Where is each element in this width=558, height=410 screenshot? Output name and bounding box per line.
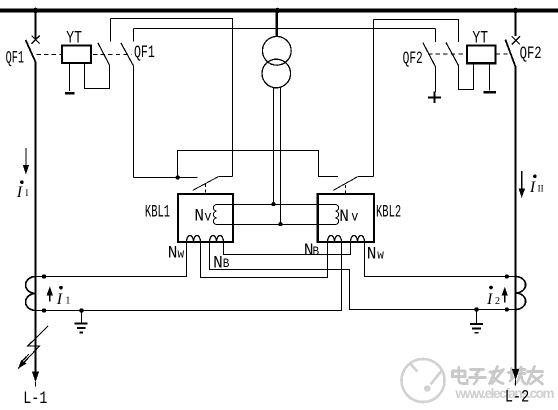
label QF1 (breaker) bbox=[6, 49, 24, 69]
svg-text:N: N bbox=[168, 244, 178, 264]
label I1 bbox=[59, 286, 63, 290]
wire: aux1 top terminal bbox=[110, 19, 112, 42]
CT TA1 secondary winding bbox=[26, 277, 36, 311]
breaker QF1 contact cross bbox=[32, 36, 40, 44]
wire: upper Nv link bbox=[217, 204, 336, 206]
wire: KBL2 Nw right lead to right CT upper bbox=[365, 242, 516, 277]
wire: YT right lead to QF1 aux1 bbox=[85, 63, 110, 88]
minus terminal (left YT) bbox=[65, 92, 74, 95]
busbar bbox=[0, 8, 558, 12]
aux contact QF1 no.2 blade bbox=[121, 43, 133, 66]
ground (right) bbox=[470, 310, 483, 333]
breaker QF2 blade bbox=[505, 40, 515, 68]
node: bus tap right feeder bbox=[513, 8, 519, 14]
label QF2 (aux) bbox=[403, 50, 423, 69]
wire: KBL1 Nw left lead to left CT bbox=[36, 242, 187, 277]
label NB (KBL2) bbox=[304, 241, 314, 261]
svg-text:I: I bbox=[56, 291, 63, 308]
watermark logo circle bbox=[402, 359, 445, 402]
svg-text:L-2: L-2 bbox=[505, 387, 529, 407]
label L-1 bbox=[23, 388, 47, 408]
winding Nw of KBL2 bbox=[351, 236, 365, 242]
svg-text:I: I bbox=[486, 291, 493, 308]
minus terminal (right YT) bbox=[484, 91, 496, 94]
aux contact QF2 no.1 blade bbox=[446, 42, 459, 66]
node: right CT lower terminal bbox=[505, 307, 509, 311]
KBL1 output switch blade bbox=[193, 177, 219, 191]
svg-text:I: I bbox=[16, 184, 23, 201]
svg-text:w: w bbox=[178, 247, 185, 262]
node A junction dot bbox=[176, 175, 180, 179]
svg-text:B: B bbox=[313, 244, 320, 259]
wire: right YT right lead to minus bbox=[489, 63, 491, 90]
svg-text:N: N bbox=[194, 207, 204, 227]
trip coil YT (right) bbox=[467, 46, 496, 64]
wire: right feeder main bbox=[515, 68, 517, 370]
label QF1 (aux) bbox=[134, 44, 155, 63]
wire: KBL1 switch pivot to line A bbox=[218, 176, 232, 178]
winding Nw of KBL1 bbox=[187, 236, 201, 242]
relay KBL2 box bbox=[318, 194, 374, 242]
svg-text:v: v bbox=[204, 209, 211, 225]
wire: right aux2 bottom to plus bbox=[435, 66, 437, 92]
label YT (left) bbox=[66, 28, 82, 48]
wire: right aux1 bottom to YT right bbox=[459, 63, 474, 89]
svg-text:YT: YT bbox=[472, 28, 488, 48]
wire: KBL1 NB right lead to KBL2 Nw left lead bbox=[224, 242, 351, 255]
node: left CT lower terminal bbox=[42, 308, 46, 312]
svg-text:2: 2 bbox=[495, 296, 500, 307]
node: right CT upper terminal bbox=[505, 274, 509, 278]
wire: right feeder upper stub bbox=[515, 11, 517, 37]
wire: node A horizontal (fixed contact of KBL1 switch) bbox=[134, 177, 198, 179]
label I2 bbox=[489, 286, 493, 290]
trip coil YT (left) bbox=[62, 46, 91, 64]
label Nv (KBL1) bbox=[194, 207, 204, 227]
svg-text:N: N bbox=[213, 254, 223, 274]
relay KBL1 box bbox=[178, 194, 233, 242]
svg-text:w: w bbox=[377, 248, 384, 263]
current arrow I-II (right feeder) bbox=[521, 171, 523, 191]
linkage dash KBL1 switch bbox=[204, 184, 206, 194]
KBL2 output switch blade bbox=[333, 177, 358, 191]
breaker QF1 blade bbox=[26, 40, 36, 63]
wire: YT left lead to minus bbox=[69, 63, 71, 91]
label Nw (KBL2) bbox=[367, 245, 377, 265]
watermark text 电子发烧友 (simulated strokes) bbox=[453, 367, 543, 385]
svg-text:QF1: QF1 bbox=[134, 44, 155, 63]
breaker QF2 contact cross bbox=[512, 36, 520, 44]
wire: lower Nv link bbox=[217, 224, 336, 226]
svg-text:QF2: QF2 bbox=[403, 50, 423, 69]
short-circuit bolt on L-1 bbox=[18, 326, 48, 369]
svg-text:II: II bbox=[538, 183, 544, 193]
wire: left feeder upper stub bbox=[35, 11, 37, 39]
node: lead a on upper Nv link bbox=[271, 202, 275, 206]
transformer T lower winding bbox=[262, 59, 291, 88]
wire: node A up and across to KBL2 switch fixed contact bbox=[178, 151, 338, 178]
svg-text:QF2: QF2 bbox=[520, 43, 542, 64]
CT TA2 secondary winding bbox=[516, 277, 526, 310]
left feeder end arrow bbox=[32, 372, 39, 383]
node: bus tap transformer bbox=[275, 8, 281, 14]
winding NB of KBL1 bbox=[210, 236, 224, 242]
svg-text:QF1: QF1 bbox=[6, 49, 24, 69]
current arrow I1 (left CT) bbox=[49, 293, 51, 302]
label L-2 bbox=[505, 387, 529, 407]
svg-text:N: N bbox=[367, 245, 377, 265]
node: right ground tap bbox=[474, 307, 478, 311]
label KBL1 bbox=[145, 203, 170, 222]
label NB (KBL1) bbox=[213, 254, 223, 274]
transformer T primary lead bbox=[276, 12, 278, 36]
wire: KBL1 Nw right lead to KBL2 NB left lead bbox=[201, 242, 328, 278]
wire: line A right (KBL2 switch to right aux1 top) bbox=[374, 20, 459, 43]
node: left CT upper terminal bbox=[42, 274, 46, 278]
label I-I bbox=[20, 180, 24, 184]
node: lead b on lower Nv link bbox=[278, 222, 282, 226]
current arrow I-I (left feeder) bbox=[25, 148, 27, 168]
aux contact QF2 no.2 blade bbox=[423, 43, 435, 67]
wire: right aux2 top terminal bbox=[435, 29, 437, 43]
wire: KBL1 NB left lead to right CT lower bbox=[210, 242, 516, 310]
label Nv (KBL2) bbox=[339, 207, 349, 227]
svg-text:I: I bbox=[529, 179, 536, 196]
wire: KBL2 switch pivot to line A right bbox=[358, 176, 374, 178]
plus terminal (QF2) bbox=[428, 92, 441, 103]
svg-text:v: v bbox=[351, 209, 358, 225]
svg-text:L-1: L-1 bbox=[23, 388, 47, 408]
node: left ground tap bbox=[79, 308, 83, 312]
label YT (right) bbox=[472, 28, 488, 48]
current arrow I2 (right CT) bbox=[504, 293, 506, 302]
transformer T upper winding bbox=[262, 36, 291, 65]
wire: line A left (aux1 top to KBL1 switch) bbox=[111, 19, 233, 177]
label I-II bbox=[533, 175, 537, 179]
right feeder end arrow bbox=[512, 369, 519, 380]
mech linkage dashes QF1 bbox=[37, 53, 63, 55]
label KBL2 bbox=[376, 203, 401, 222]
svg-text:KBL1: KBL1 bbox=[145, 203, 170, 222]
label Nw (KBL1) bbox=[168, 244, 178, 264]
svg-text:I: I bbox=[25, 188, 28, 198]
wire: aux2 top terminal bbox=[133, 29, 135, 42]
mech linkage dashes QF2 bbox=[428, 53, 467, 55]
wire: KBL2 NB right lead to left CT lower bbox=[36, 242, 342, 311]
aux contact QF1 no.1 blade bbox=[98, 43, 110, 66]
wire: line B (aux2 left top to aux2 right top) bbox=[134, 28, 436, 30]
node: bus tap left feeder bbox=[33, 8, 39, 14]
wire: left feeder main bbox=[35, 63, 37, 372]
svg-text:1: 1 bbox=[65, 295, 70, 306]
winding NB of KBL2 bbox=[328, 236, 342, 242]
ground (left) bbox=[75, 311, 88, 333]
linkage dash KBL2 switch bbox=[344, 185, 346, 194]
svg-text:KBL2: KBL2 bbox=[376, 203, 401, 222]
label QF2 (breaker) bbox=[520, 43, 542, 64]
wire: transformer secondary lead b bbox=[280, 87, 282, 225]
wire: aux2 bottom to node A bbox=[133, 66, 135, 178]
winding Nv of KBL2 bbox=[335, 205, 338, 225]
wire: transformer secondary lead a bbox=[273, 88, 275, 205]
svg-text:YT: YT bbox=[66, 28, 82, 48]
svg-text:N: N bbox=[339, 207, 349, 227]
winding Nv of KBL1 bbox=[213, 205, 216, 225]
